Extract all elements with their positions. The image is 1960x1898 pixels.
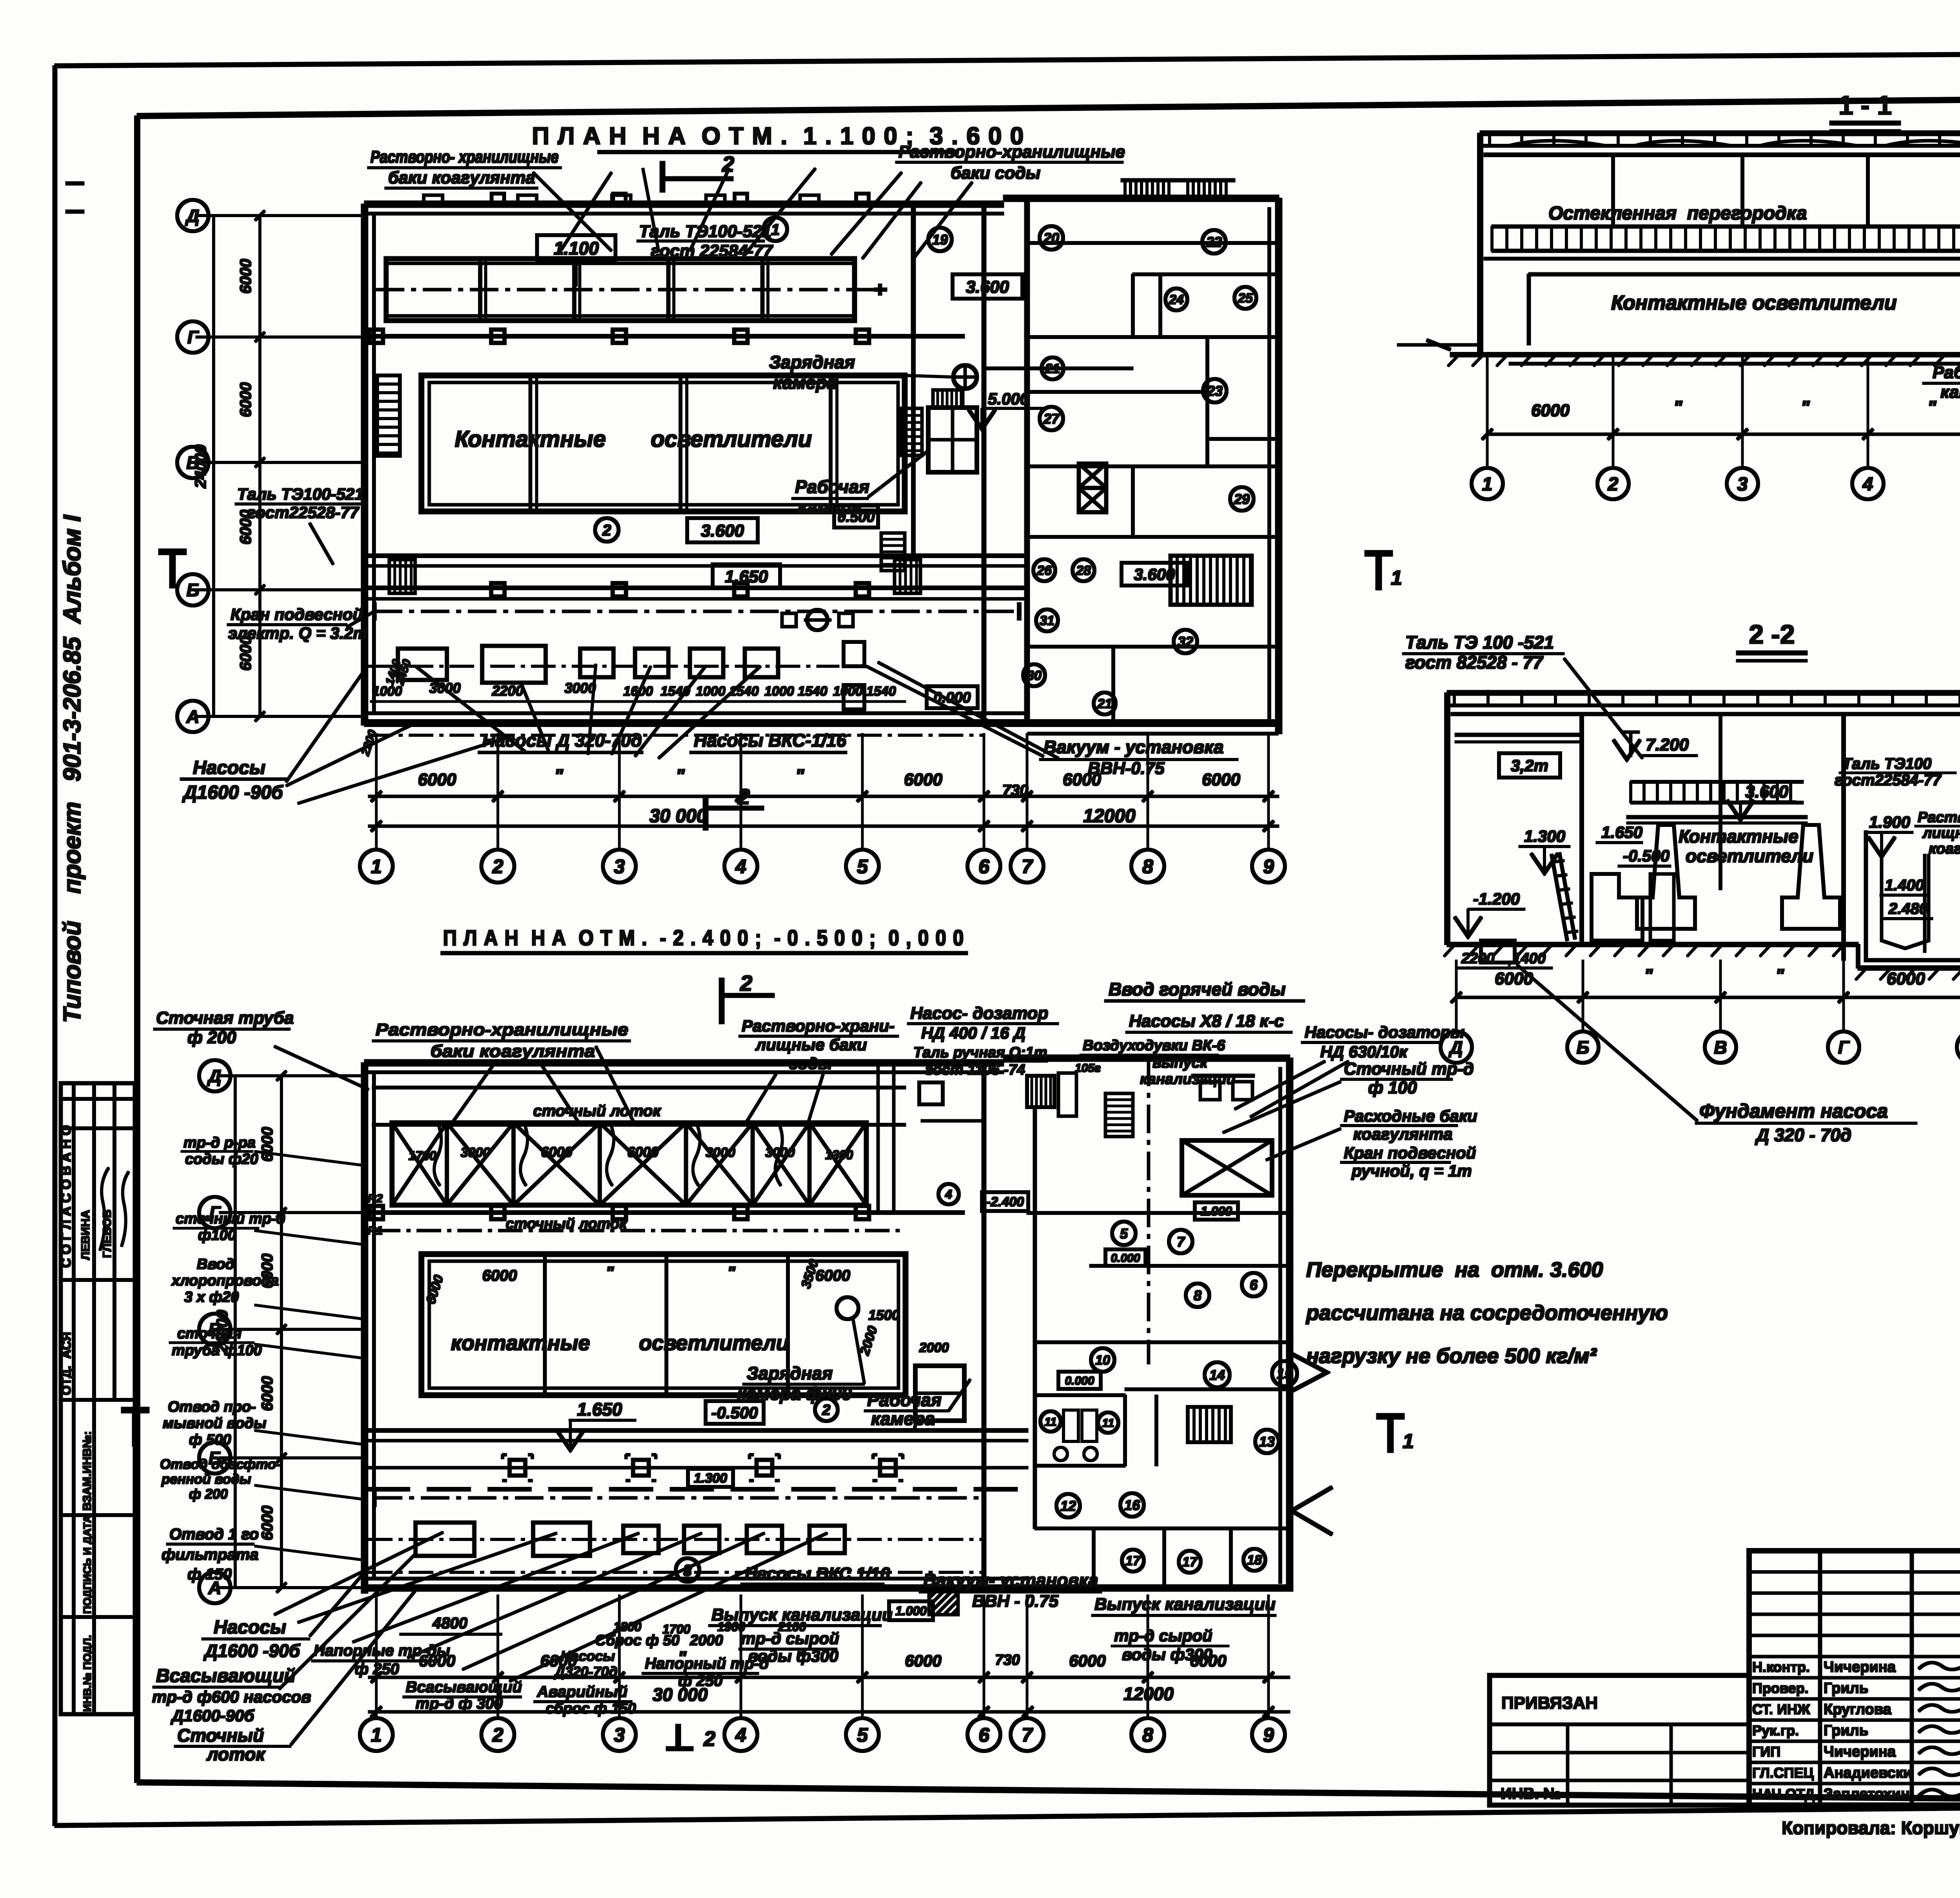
svg-text:2: 2 [737, 784, 750, 809]
svg-text:31: 31 [1040, 613, 1054, 628]
svg-text:Рабочая: Рабочая [795, 477, 869, 497]
svg-text:Зарядная: Зарядная [747, 1363, 833, 1383]
svg-text:25: 25 [1238, 291, 1253, 306]
svg-text:Насосы Х8 / 18 к-с: Насосы Х8 / 18 к-с [1129, 1012, 1284, 1031]
svg-text:Д1600-90б: Д1600-90б [171, 1706, 254, 1725]
left stamp strip outer [61, 1083, 135, 1714]
svg-text:ПРИВЯЗАН: ПРИВЯЗАН [1501, 1693, 1598, 1713]
section 1-1 osvetliteli box [1529, 273, 1960, 276]
section 2-2 left tank steps [1592, 874, 1642, 941]
svg-text:3: 3 [614, 856, 625, 877]
svg-text:-1.200: -1.200 [1473, 890, 1520, 908]
svg-text:": " [1644, 965, 1653, 986]
svg-text:ИНВ. №: ИНВ. № [1501, 1785, 1561, 1802]
svg-text:32: 32 [1178, 634, 1193, 650]
svg-text:": " [795, 1648, 804, 1668]
svg-text:6000: 6000 [815, 1267, 850, 1284]
svg-text:СТ. ИНЖ: СТ. ИНЖ [1752, 1701, 1810, 1717]
svg-text:ПОДПИСЬ И ДАТА: ПОДПИСЬ И ДАТА [81, 1515, 93, 1614]
svg-text:3.600: 3.600 [966, 277, 1009, 297]
svg-text:Н.контр.: Н.контр. [1752, 1659, 1810, 1675]
section 2-2 axis extensions [1455, 960, 1457, 1031]
svg-text:1: 1 [1482, 474, 1493, 495]
section 1-1 floor hatch [1448, 355, 1458, 366]
svg-text:3000: 3000 [461, 1145, 490, 1160]
svg-text:Кран подвесной: Кран подвесной [230, 605, 363, 624]
svg-text:6000: 6000 [237, 636, 254, 671]
svg-text:А: А [208, 1578, 221, 1598]
svg-text:17: 17 [1182, 1555, 1198, 1570]
svg-text:0.000: 0.000 [1111, 1252, 1140, 1265]
svg-text:Таль ручная Q:1т: Таль ручная Q:1т [913, 1044, 1047, 1061]
svg-text:Насосы ВКС 1/16: Насосы ВКС 1/16 [745, 1564, 890, 1583]
svg-text:2: 2 [740, 971, 752, 995]
corridor stair hatch right [895, 560, 920, 593]
pumps row top plan [398, 649, 447, 680]
privyazan box [1490, 1675, 1749, 1805]
svg-text:ИНВ.№ ПОДЛ.: ИНВ.№ ПОДЛ. [81, 1635, 93, 1712]
section 2-2 floor line [1447, 943, 1858, 947]
svg-text:1: 1 [1403, 1430, 1414, 1453]
section mark 2 bottom of bottom plan [676, 1724, 681, 1749]
svg-text:": " [1775, 965, 1784, 986]
svg-text:С О Г Л А С О В А Н О: С О Г Л А С О В А Н О [59, 1125, 74, 1268]
svg-text:-2.400: -2.400 [986, 1195, 1024, 1209]
svg-text:1.000: 1.000 [1201, 1204, 1232, 1218]
circle 2 hall [595, 518, 619, 542]
svg-text:": " [554, 766, 564, 787]
bottom plan south wall [365, 1585, 1290, 1591]
svg-text:1.650: 1.650 [1601, 823, 1642, 841]
svg-text:ГЛЕБОВ: ГЛЕБОВ [101, 1209, 114, 1258]
rabochaya kamera bottom plan [915, 1366, 964, 1421]
section 2-2 roof [1447, 691, 1960, 695]
svg-text:рассчитана на сосредоточенную: рассчитана на сосредоточенную [1305, 1301, 1668, 1325]
equipment top right of bottom plan hall [919, 1082, 943, 1104]
left axis dims bottom plan [281, 1076, 283, 1588]
svg-text:19: 19 [932, 232, 948, 248]
section 2-2 right tank [1866, 831, 1960, 960]
svg-text:Д: Д [1448, 1037, 1463, 1058]
section 1-1 roof ribs [1489, 135, 1491, 145]
svg-text:26: 26 [1036, 563, 1052, 578]
svg-text:Круглова: Круглова [1824, 1701, 1892, 1718]
svg-text:Перекрытие на отм. 3.600: Перекрытие на отм. 3.600 [1306, 1258, 1603, 1282]
svg-text:6000: 6000 [1495, 969, 1533, 988]
lift shaft X box bottom plan [1182, 1140, 1272, 1195]
svg-text:гост 1106 -74: гост 1106 -74 [925, 1062, 1025, 1078]
svg-text:Аварийный: Аварийный [537, 1683, 628, 1700]
svg-text:8: 8 [1142, 856, 1153, 877]
svg-text:мывной воды: мывной воды [163, 1415, 267, 1432]
svg-text:4: 4 [735, 856, 746, 877]
svg-text:7: 7 [1022, 856, 1033, 877]
svg-text:14: 14 [1209, 1367, 1225, 1383]
svg-text:А: А [186, 707, 199, 727]
svg-text:5: 5 [857, 856, 868, 877]
svg-text:Растворно- хранилищные: Растворно- хранилищные [370, 147, 559, 167]
bottom plan west wall inner [373, 1072, 376, 1579]
dash line pumps bottom [368, 1539, 984, 1541]
svg-text:12: 12 [1060, 1498, 1076, 1514]
left stamp strip dividers [61, 1098, 135, 1100]
svg-text:Таль ТЭ100-521: Таль ТЭ100-521 [639, 222, 771, 241]
svg-text:0.500: 0.500 [837, 509, 875, 526]
section mark 2 top bottom plan [719, 978, 724, 1024]
top plan vent grilles top right [1124, 180, 1126, 199]
svg-text:ОТД. АСЯ: ОТД. АСЯ [59, 1332, 73, 1395]
tank pipes through north wall [424, 195, 443, 204]
osvetliteli tank bottom plan [421, 1254, 906, 1395]
section 1-1 axis extensions [1486, 355, 1488, 467]
lift shaft cross [1079, 464, 1106, 488]
svg-text:коагулянта: коагулянта [1353, 1125, 1453, 1143]
callout 3 circle [676, 1558, 699, 1582]
svg-text:6000: 6000 [1063, 770, 1101, 789]
svg-text:7: 7 [1177, 1234, 1185, 1250]
crane line bottom plan [374, 1497, 984, 1499]
svg-text:В: В [186, 453, 199, 473]
section 1-1 ground [1450, 353, 1960, 357]
svg-text:Выпуск канализации: Выпуск канализации [1094, 1595, 1276, 1614]
axis B columns bottom [510, 1460, 525, 1476]
toilet fixtures [1063, 1410, 1078, 1441]
svg-text:Расходные баки: Расходные баки [1344, 1107, 1477, 1125]
section 2-2 roof ribs [1454, 694, 1455, 704]
svg-text:ВВН - 0.75: ВВН - 0.75 [972, 1592, 1059, 1611]
svg-text:30: 30 [1027, 668, 1042, 683]
svg-text:Г: Г [1838, 1037, 1850, 1058]
svg-text:6000: 6000 [423, 1273, 446, 1306]
svg-text:выпуск: выпуск [1152, 1055, 1208, 1071]
svg-text:27: 27 [1043, 411, 1060, 427]
svg-text:Типовой проект 901-3-206.: Типовой проект 901-3-206.85 Альбом I [59, 514, 86, 1023]
svg-text:": " [1673, 397, 1683, 418]
svg-text:10: 10 [1095, 1353, 1110, 1368]
svg-text:23: 23 [1207, 383, 1223, 399]
svg-text:ф100: ф100 [198, 1227, 236, 1244]
svg-text:6000: 6000 [237, 259, 254, 294]
svg-text:ГИП: ГИП [1752, 1744, 1780, 1760]
svg-text:11: 11 [1044, 1416, 1056, 1428]
svg-text:3,2т: 3,2т [1511, 756, 1548, 775]
svg-text:13: 13 [1259, 1434, 1275, 1450]
svg-text:Г: Г [187, 327, 199, 348]
svg-text:4: 4 [1862, 474, 1873, 495]
svg-text:6000: 6000 [1531, 401, 1570, 420]
svg-text:Анадиевски: Анадиевски [1824, 1765, 1912, 1781]
svg-text:1800: 1800 [613, 1620, 641, 1634]
svg-text:Контактные: Контактные [1679, 826, 1798, 847]
corridor walls [365, 554, 1028, 558]
axis extension lines top plan [376, 734, 377, 850]
svg-text:11: 11 [1102, 1417, 1114, 1430]
section 1-1 left pipe stub [1397, 344, 1480, 346]
svg-text:контактные: контактные [451, 1331, 590, 1355]
svg-text:П Л А Н Н А О Т М . - 2 . 4: П Л А Н Н А О Т М . - 2 . 4 0 0 ; - 0 . … [443, 925, 964, 950]
top plan wall on axis Б columns [491, 583, 505, 596]
section 1-1 roof humps [1509, 141, 1605, 146]
top plan wing east inner line [1268, 208, 1271, 723]
svg-text:камера: камера [1940, 383, 1960, 402]
svg-text:2: 2 [822, 1402, 830, 1419]
svg-text:6000: 6000 [418, 770, 456, 789]
svg-text:1000: 1000 [833, 684, 863, 699]
svg-text:1.650: 1.650 [725, 567, 768, 586]
svg-text:гост 82528 - 77: гост 82528 - 77 [1405, 652, 1544, 673]
drawing inner frame [137, 95, 1960, 116]
svg-text:3: 3 [614, 1724, 625, 1746]
svg-text:тр-д сырой: тр-д сырой [1114, 1626, 1212, 1645]
entry porch right [1290, 1353, 1327, 1392]
svg-text:Выпуск канализации: Выпуск канализации [711, 1605, 893, 1624]
svg-text:6000: 6000 [540, 1651, 577, 1670]
section 1-1 dim line [1487, 433, 1960, 435]
axis circles top plan [360, 850, 393, 883]
svg-text:1: 1 [371, 1724, 382, 1746]
svg-text:гост22528-77: гост22528-77 [247, 503, 359, 522]
svg-text:2: 2 [703, 1727, 715, 1751]
pumps row bottom plan [416, 1523, 474, 1556]
svg-text:1540: 1540 [798, 684, 828, 699]
svg-text:R2: R2 [368, 1192, 383, 1205]
svg-text:Чичерина: Чичерина [1824, 1744, 1896, 1760]
svg-text:6000: 6000 [905, 1651, 941, 1670]
svg-text:6000: 6000 [904, 770, 942, 789]
svg-text:Зарядная: Зарядная [769, 352, 855, 372]
svg-text:2 -2: 2 -2 [1749, 620, 1795, 649]
svg-text:9: 9 [1263, 856, 1274, 877]
section marker T1 left bottom plan [122, 1407, 149, 1413]
svg-text:21: 21 [1097, 696, 1112, 711]
svg-text:1.650: 1.650 [577, 1399, 622, 1419]
bottom plan north wall [365, 1060, 1004, 1066]
section marker T1 right top plan [1365, 551, 1392, 556]
svg-text:6000: 6000 [237, 383, 254, 417]
left axis dim lines top plan [259, 216, 261, 716]
svg-text:2200: 2200 [1461, 950, 1495, 967]
svg-text:Таль ТЭ100-521: Таль ТЭ100-521 [237, 485, 364, 503]
svg-text:": " [678, 1648, 687, 1668]
svg-text:1540: 1540 [866, 684, 896, 699]
stair bottom right wing [1188, 1407, 1231, 1442]
svg-text:Гриль: Гриль [1824, 1722, 1868, 1739]
top plan south wall [365, 720, 1278, 727]
bottom plan right wing partitions [1033, 1109, 1036, 1528]
svg-text:тр-д сырой: тр-д сырой [741, 1629, 839, 1648]
svg-text:4: 4 [735, 1724, 746, 1746]
top plan west wall [361, 204, 368, 725]
svg-text:6: 6 [978, 856, 990, 877]
svg-text:7: 7 [1022, 1724, 1033, 1746]
svg-text:Растворно-хранилищные: Растворно-хранилищные [376, 1020, 628, 1039]
svg-text:21: 21 [1045, 361, 1060, 376]
svg-text:3000: 3000 [564, 680, 596, 696]
svg-text:2: 2 [492, 1724, 503, 1746]
svg-text:6000: 6000 [1202, 770, 1240, 789]
svg-text:Насосы: Насосы [214, 1617, 286, 1638]
svg-text:17: 17 [1125, 1554, 1141, 1568]
svg-text:3.600: 3.600 [701, 521, 744, 540]
svg-text:Остекленная перегородка: Остекленная перегородка [1548, 203, 1807, 224]
svg-text:": " [606, 1263, 614, 1282]
coagulant storage tanks row [386, 259, 855, 321]
title block names box [1749, 1551, 1960, 1805]
stochny lotok top [372, 1086, 906, 1089]
svg-text:Д1600 -90б: Д1600 -90б [203, 1641, 301, 1661]
svg-text:осветлители: осветлители [639, 1331, 789, 1355]
svg-text:Вакуум- установка: Вакуум- установка [923, 1570, 1098, 1590]
top plan wing partitions extra [1027, 391, 1207, 393]
right wing rooms top plan [1027, 242, 1279, 245]
section 1-1 floor band [1484, 257, 1960, 260]
svg-text:ГЛ.СПЕЦ: ГЛ.СПЕЦ [1752, 1765, 1814, 1781]
svg-text:1000: 1000 [764, 684, 794, 699]
svg-text:1300: 1300 [825, 1148, 853, 1162]
section 2-2 floor hatch [1444, 945, 1454, 956]
svg-text:6000: 6000 [259, 1254, 276, 1289]
corridor lower dashed wall [367, 1488, 1028, 1491]
svg-text:Всасывающий: Всасывающий [156, 1666, 296, 1686]
svg-text:ЛЕВИНА: ЛЕВИНА [79, 1210, 92, 1260]
box -0.500 bottom [706, 1401, 764, 1424]
section 2-2 interior columns [1580, 714, 1584, 944]
top plan west wall inner line [373, 214, 376, 711]
svg-text:1000: 1000 [372, 684, 402, 699]
svg-text:730: 730 [1002, 782, 1029, 799]
svg-text:30 000: 30 000 [650, 806, 707, 827]
section 2-2 walls [1445, 693, 1450, 944]
top plan bottom dimension line 2 [368, 825, 1279, 827]
top plan right wing east wall [1276, 198, 1282, 734]
svg-text:Контактные осветлители: Контактные осветлители [1611, 292, 1897, 314]
svg-text:2000: 2000 [919, 1340, 949, 1355]
svg-text:3.600: 3.600 [1134, 565, 1175, 584]
svg-text:1: 1 [771, 221, 780, 238]
svg-text:1000: 1000 [696, 684, 726, 699]
svg-text:28: 28 [1076, 563, 1091, 578]
tank row centre dash-dot line [376, 288, 880, 291]
label 1.100 box [537, 235, 615, 261]
svg-text:Насосы- дозаторы: Насосы- дозаторы [1305, 1023, 1465, 1041]
rabochaya kamera square [928, 408, 977, 472]
room circles bottom plan [938, 1184, 959, 1204]
axis circles left top plan [177, 200, 209, 231]
svg-text:сточный лоток: сточный лоток [506, 1216, 628, 1232]
title block signatures scribbles [1919, 1662, 1960, 1670]
svg-text:": " [1801, 397, 1810, 418]
svg-text:Растворно-хран-: Растворно-хран- [1918, 809, 1960, 826]
corridor stair hatch left [389, 560, 415, 593]
svg-text:2000: 2000 [690, 1632, 723, 1649]
svg-text:ф 100: ф 100 [1368, 1078, 1417, 1097]
small stair near 0.500 [881, 533, 905, 571]
svg-text:": " [1927, 397, 1937, 418]
svg-text:Ввод горячей воды: Ввод горячей воды [1109, 979, 1286, 999]
svg-text:Д 320 - 70д: Д 320 - 70д [1755, 1125, 1851, 1145]
section mark 2 bottom of top plan [703, 796, 708, 830]
main bottom dimension line 2 bottom plan [368, 1711, 1290, 1713]
svg-text:воды ф300: воды ф300 [1122, 1645, 1212, 1664]
svg-text:ф 200: ф 200 [187, 1028, 236, 1047]
svg-text:В: В [1714, 1037, 1727, 1058]
section 2-2 axis circles [1441, 1031, 1472, 1063]
svg-text:сброс ф 150: сброс ф 150 [546, 1700, 636, 1717]
rabochaya kamera hatch box [933, 390, 963, 408]
svg-text:Г: Г [209, 1203, 221, 1223]
svg-text:6000: 6000 [259, 1127, 276, 1162]
svg-text:Д1600 -90б: Д1600 -90б [182, 782, 283, 803]
svg-text:НАЧ.ОТД: НАЧ.ОТД [1752, 1786, 1815, 1802]
svg-text:Насосы: Насосы [193, 758, 265, 778]
svg-text:1.400: 1.400 [1885, 877, 1924, 894]
svg-text:,1400: ,1400 [1508, 950, 1546, 967]
top plan bottom dimension line 1 [368, 795, 1279, 798]
section 2-2 3.2t box [1499, 753, 1560, 778]
svg-text:6000: 6000 [419, 1651, 455, 1670]
room circles top plan right wing [928, 228, 952, 251]
crane dash-dot line top plan [374, 610, 1019, 613]
svg-text:5: 5 [857, 1724, 868, 1746]
svg-text:1.300: 1.300 [1524, 827, 1565, 845]
svg-text:6000: 6000 [237, 510, 254, 545]
svg-text:Б: Б [209, 1448, 221, 1468]
axis circles left bottom plan [199, 1060, 230, 1091]
svg-text:канализации: канализации [1140, 1071, 1236, 1088]
svg-text:ф 200: ф 200 [189, 1486, 228, 1502]
svg-text:Заплетохин: Заплетохин [1824, 1786, 1910, 1802]
section 2-2 dim line [1456, 996, 1960, 999]
svg-text:-0.500: -0.500 [1623, 847, 1670, 865]
svg-text:Ввод: Ввод [197, 1256, 234, 1273]
section marker T1 left top plan [159, 549, 186, 555]
callout circle 1 [764, 218, 787, 241]
top plan interior wall axis6 [982, 204, 986, 720]
svg-text:12000: 12000 [1123, 1684, 1174, 1704]
svg-text:29: 29 [1234, 491, 1250, 507]
svg-text:1700: 1700 [408, 1149, 436, 1163]
svg-text:Рабочая: Рабочая [1933, 363, 1960, 382]
svg-text:Б: Б [187, 580, 200, 600]
osvetliteli tank top plan [421, 375, 905, 511]
svg-text:сточный лоток: сточный лоток [533, 1102, 661, 1120]
svg-text:730: 730 [995, 1652, 1020, 1668]
section 2-2 foundation block [1481, 941, 1515, 963]
svg-text:4: 4 [945, 1187, 952, 1202]
section 2-2 ladder [1552, 854, 1567, 941]
svg-text:8: 8 [1142, 1724, 1153, 1746]
svg-text:8: 8 [1194, 1287, 1201, 1303]
section 1-1 glazing strip [1492, 225, 1960, 228]
svg-text:ренной воды: ренной воды [161, 1472, 251, 1487]
svg-text:Фундамент насоса: Фундамент насоса [1699, 1100, 1888, 1122]
svg-text:6000: 6000 [541, 1144, 572, 1160]
svg-text:НД 630/10к: НД 630/10к [1320, 1042, 1408, 1061]
small stair right of hall [902, 408, 922, 455]
axis circles bottom plan [360, 1718, 393, 1751]
corridor bottom plan [365, 1429, 1028, 1432]
svg-text:1500: 1500 [868, 1307, 900, 1323]
stochny lotok dash middle [376, 1229, 902, 1232]
section 2-2 crane beam [1455, 733, 1580, 736]
svg-text:Насосы ВКС-1/16: Насосы ВКС-1/16 [694, 730, 847, 750]
svg-text:Сточная труба: Сточная труба [156, 1008, 294, 1028]
section 1-1 left wall [1478, 133, 1483, 355]
section 2-2 beam under glazing [1627, 816, 1807, 819]
svg-text:Контактные: Контактные [455, 426, 606, 452]
svg-text:ручной, q = 1т: ручной, q = 1т [1351, 1162, 1472, 1180]
main bottom dimension line 1 bottom plan [368, 1676, 1290, 1679]
